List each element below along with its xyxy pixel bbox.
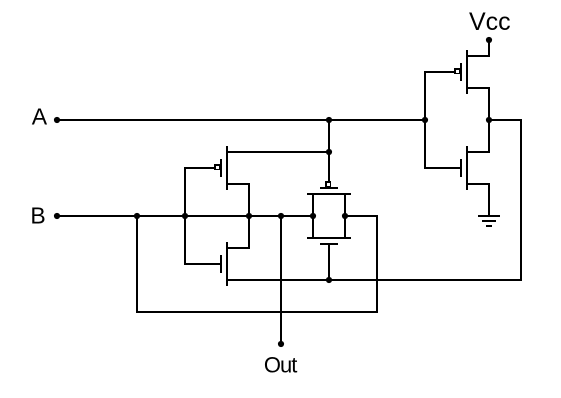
svg-text:Out: Out xyxy=(264,352,297,377)
svg-text:B: B xyxy=(30,202,45,228)
svg-text:Vcc: Vcc xyxy=(469,8,511,36)
svg-text:A: A xyxy=(32,103,48,129)
